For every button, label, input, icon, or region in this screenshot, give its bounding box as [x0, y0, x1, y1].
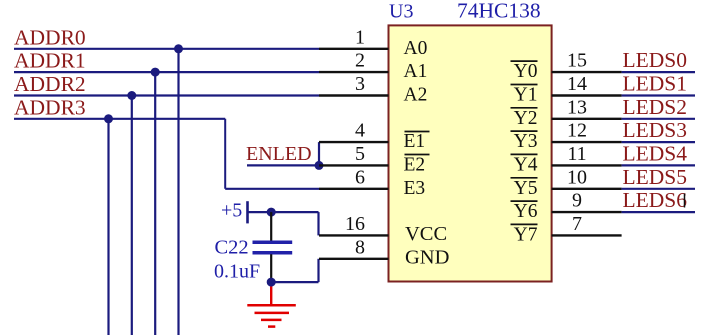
svg-text:4: 4	[355, 120, 365, 142]
svg-text:LEDS5: LEDS5	[623, 165, 688, 189]
svg-text:3: 3	[355, 73, 365, 95]
svg-text:LEDS6: LEDS6	[623, 188, 688, 212]
svg-text:ADDR2: ADDR2	[14, 72, 86, 96]
svg-text:6: 6	[355, 166, 365, 188]
svg-text:A2: A2	[404, 85, 428, 106]
svg-text:ADDR3: ADDR3	[14, 95, 86, 119]
svg-text:Y0: Y0	[514, 61, 538, 82]
svg-text:E2: E2	[404, 154, 426, 175]
svg-text:2: 2	[355, 50, 365, 72]
svg-text:C22: C22	[215, 237, 249, 259]
svg-text:16: 16	[345, 213, 365, 235]
svg-text:LEDS1: LEDS1	[623, 72, 688, 96]
svg-text:9: 9	[572, 190, 582, 212]
svg-text:U3: U3	[389, 1, 413, 23]
svg-text:A0: A0	[404, 38, 428, 59]
svg-text:12: 12	[567, 120, 587, 142]
svg-text:15: 15	[567, 50, 587, 72]
svg-text:14: 14	[567, 73, 587, 95]
svg-text:Y7: Y7	[514, 224, 538, 245]
svg-text:10: 10	[567, 166, 587, 188]
svg-text:ADDR1: ADDR1	[14, 49, 86, 73]
svg-text:Y4: Y4	[514, 154, 538, 175]
svg-text:ADDR0: ADDR0	[14, 25, 86, 49]
svg-text:LEDS4: LEDS4	[623, 141, 688, 165]
svg-text:LEDS0: LEDS0	[623, 48, 688, 72]
svg-text:VCC: VCC	[405, 223, 447, 245]
svg-text:E1: E1	[404, 131, 426, 152]
svg-text:+5: +5	[221, 200, 242, 222]
svg-text:GND: GND	[405, 246, 449, 268]
svg-text:Y1: Y1	[514, 85, 538, 106]
svg-text:Y6: Y6	[514, 201, 538, 222]
svg-text:74HC138: 74HC138	[457, 0, 541, 23]
svg-text:0.1uF: 0.1uF	[214, 261, 260, 283]
svg-text:8: 8	[355, 236, 365, 258]
svg-text:A1: A1	[404, 61, 428, 82]
svg-text:E3: E3	[404, 178, 426, 199]
svg-text:1: 1	[355, 26, 365, 48]
svg-text:13: 13	[567, 96, 587, 118]
svg-text:Y2: Y2	[514, 108, 538, 129]
svg-text:11: 11	[567, 143, 586, 165]
svg-text:ENLED: ENLED	[246, 143, 312, 165]
svg-text:Y3: Y3	[514, 131, 538, 152]
svg-text:Y5: Y5	[514, 178, 538, 199]
svg-text:7: 7	[572, 213, 582, 235]
svg-text:5: 5	[355, 143, 365, 165]
svg-text:LEDS3: LEDS3	[623, 118, 688, 142]
svg-text:LEDS2: LEDS2	[623, 95, 688, 119]
